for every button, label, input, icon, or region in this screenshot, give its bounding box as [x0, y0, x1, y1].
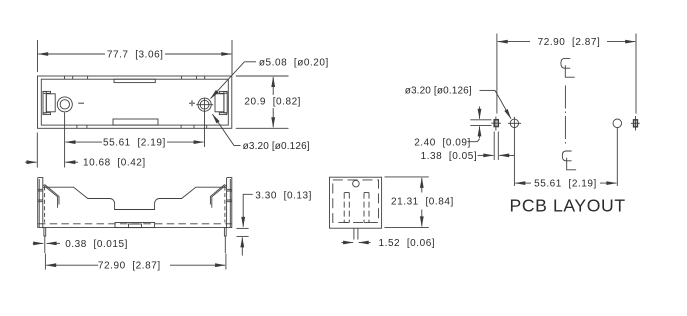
front view right pin	[224, 228, 226, 236]
svg-text:3.30 [0.13]: 3.30 [0.13]	[255, 191, 312, 202]
svg-text:20.9 [0.82]: 20.9 [0.82]	[244, 96, 301, 107]
positive hole crosshair	[196, 104, 213, 106]
left contact clip	[43, 92, 46, 114]
plus sign	[189, 100, 195, 106]
front view right spring wire	[212, 185, 227, 208]
dimension 10.68 [0.42]	[36, 133, 38, 168]
front view left contact plate dashes	[44, 187, 46, 223]
PCB left hole	[510, 119, 518, 127]
bottom edge ticks	[77, 125, 207, 128]
svg-text:1.38 [0.05]: 1.38 [0.05]	[421, 151, 478, 162]
end view pin	[354, 228, 358, 239]
PCB center line dash-dot	[564, 86, 566, 147]
dimension 20.9 [0.82]	[236, 75, 289, 77]
svg-text:10.68 [0.42]: 10.68 [0.42]	[83, 158, 146, 169]
dimension 77.7 [3.06]	[37, 40, 39, 72]
positive terminal hole	[198, 98, 211, 111]
svg-text:21.31 [0.84]: 21.31 [0.84]	[391, 197, 454, 208]
PCB label dia 3.20 leader	[480, 89, 496, 91]
svg-text:72.90 [2.87]: 72.90 [2.87]	[538, 37, 601, 48]
PCB dimension 55.61 [2.19]	[515, 182, 531, 184]
PCB layout dimension 72.90 [2.87]	[496, 34, 498, 114]
svg-text:2.40 [0.09]: 2.40 [0.09]	[414, 138, 471, 149]
label dia 5.08 leader	[244, 61, 256, 63]
top view inner body	[41, 79, 228, 125]
dimension 0.38 [0.015]	[33, 242, 43, 244]
front view middle tab	[115, 223, 155, 228]
svg-text:ø5.08 [ø0.20]: ø5.08 [ø0.20]	[259, 58, 329, 69]
front view dashed center line	[38, 223, 231, 225]
top view outer body	[38, 76, 232, 128]
front view left spring wire	[43, 185, 58, 208]
svg-text:1.52 [0.06]: 1.52 [0.06]	[379, 238, 436, 249]
PCB centerline symbol top	[561, 58, 575, 77]
end view hole circle	[353, 180, 360, 187]
svg-text:72.90 [2.87]: 72.90 [2.87]	[98, 261, 161, 272]
end view right slot dashed lines	[364, 193, 369, 223]
front view left wall	[38, 178, 43, 228]
top view bottom middle tab	[113, 119, 158, 125]
front view bottom edge	[38, 227, 233, 229]
svg-text:55.61 [2.19]: 55.61 [2.19]	[103, 138, 166, 149]
svg-text:0.38 [0.015]: 0.38 [0.015]	[65, 239, 128, 250]
end view outer body	[330, 177, 382, 228]
dimension 21.31 [0.84]	[385, 176, 429, 178]
PCB right hole	[613, 119, 622, 128]
dimension 72.90 [2.87] front view	[44, 254, 46, 270]
svg-text:PCB LAYOUT: PCB LAYOUT	[510, 196, 626, 216]
front view right wall clip marks	[227, 189, 232, 201]
dimension 1.52 [0.06]	[342, 242, 354, 244]
front view left pin	[44, 228, 46, 236]
PCB left slot pad	[494, 120, 498, 127]
front view body profile	[43, 187, 227, 209]
end view dashed inner outline	[333, 180, 379, 223]
svg-text:ø3.20 [ø0.126]: ø3.20 [ø0.126]	[243, 141, 310, 152]
front view left wall clip marks	[38, 189, 43, 201]
negative terminal hole	[57, 97, 72, 112]
minus sign	[78, 103, 84, 105]
PCB right slot pad	[634, 120, 638, 127]
end view left slot dashed lines	[344, 193, 349, 223]
PCB dimension 1.38 [0.05]	[493, 132, 495, 161]
dimension 55.61 [2.19] top view	[64, 113, 66, 168]
PCB centerline symbol bottom	[562, 151, 576, 170]
top view top middle tab	[114, 79, 155, 82]
front view right contact plate dashes	[224, 187, 226, 223]
front view right wall	[227, 178, 232, 228]
svg-text:55.61 [2.19]: 55.61 [2.19]	[534, 179, 597, 190]
right contact clip	[224, 92, 227, 114]
PCB dimension 2.40 [0.09]	[470, 119, 491, 121]
label dia 3.20 leader top view	[234, 145, 241, 147]
svg-text:77.7 [3.06]: 77.7 [3.06]	[107, 50, 164, 61]
top edge ticks	[65, 76, 205, 79]
svg-text:ø3.20 [ø0.126]: ø3.20 [ø0.126]	[405, 86, 472, 97]
dimension 3.30 [0.13]	[243, 194, 253, 212]
